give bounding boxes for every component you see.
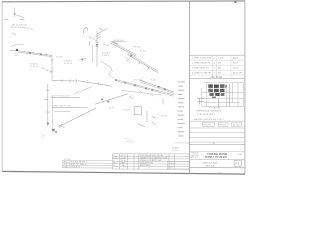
svg-text:GA DWG 2044-301 SHT 1 OF 2: GA DWG 2044-301 SHT 1 OF 2 [194,118,224,121]
svg-text:N 1020.5: N 1020.5 [203,124,212,126]
svg-text:LOCATION: LOCATION [210,106,221,109]
svg-text:EL 94.60: EL 94.60 [135,79,144,81]
svg-text:2044: 2044 [168,167,172,169]
svg-text:NTS: NTS [238,154,243,156]
svg-text:NOTES: NOTES [64,159,71,161]
svg-text:N 990: N 990 [162,115,168,117]
svg-text:A106: A106 [233,56,239,59]
svg-text:APPROVED: APPROVED [140,164,151,167]
svg-text:FW-204: FW-204 [133,46,141,48]
svg-text:EL 97.2: EL 97.2 [140,50,148,52]
svg-text:1 40NB SCH40 PIPE: 1 40NB SCH40 PIPE [192,57,212,59]
svg-text:EL 96.3: EL 96.3 [233,124,241,126]
svg-text:4 40NB FLG WN RF: 4 40NB FLG WN RF [192,72,212,74]
svg-text:REFERENCE DRAWINGS: REFERENCE DRAWINGS [197,110,222,113]
svg-text:A105 SET: A105 SET [233,71,243,74]
svg-text:ISO-1147: ISO-1147 [206,166,216,168]
svg-text:APP GLT: APP GLT [190,156,198,159]
svg-text:40-CW-1147: 40-CW-1147 [114,40,125,42]
svg-text:2 40NB ELBOW 90: 2 40NB ELBOW 90 [192,62,211,64]
svg-text:FROM 102-B: FROM 102-B [11,27,23,29]
svg-text:SUPPLY TO HX-301: SUPPLY TO HX-301 [205,156,228,159]
svg-text:TP-204: TP-204 [123,110,130,112]
svg-text:E 210: E 210 [151,80,157,82]
svg-text:40-CW: 40-CW [56,57,62,59]
svg-text:DWG NO 2044: DWG NO 2044 [203,163,218,165]
svg-text:CONT. ON ISO-1148: CONT. ON ISO-1148 [51,95,70,97]
svg-text:N.T.S.: N.T.S. [172,150,178,152]
svg-text:E 204.6: E 204.6 [102,55,110,57]
svg-text:PAINT SYSTEM P3: PAINT SYSTEM P3 [64,165,81,168]
svg-text:P+ID 102-B REV 2: P+ID 102-B REV 2 [198,114,216,116]
svg-text:JOB NO: JOB NO [168,163,176,165]
svg-text:E 204.1: E 204.1 [219,124,227,126]
svg-text:1147-2: 1147-2 [217,172,224,174]
svg-text:3 40NB GATE VLV: 3 40NB GATE VLV [192,66,210,69]
svg-text:DO NOT SCALE: DO NOT SCALE [175,142,191,145]
svg-text:CONT. ON ISO-1146: CONT. ON ISO-1146 [53,106,72,108]
svg-text:KEY PLAN: KEY PLAN [211,76,223,79]
svg-text:R 2: R 2 [235,162,239,165]
svg-text:A234: A234 [233,61,239,64]
svg-text:EL 96.30: EL 96.30 [30,66,39,68]
svg-text:ISSUED FOR APPROVAL: ISSUED FOR APPROVAL [140,159,162,162]
svg-text:EL 95.10: EL 95.10 [64,63,73,65]
svg-text:3.2 M: 3.2 M [218,57,223,59]
svg-text:EL 93: EL 93 [109,108,115,110]
svg-text:SCALE: SCALE [172,146,179,149]
svg-text:A3: A3 [213,142,215,145]
svg-text:SO-114: SO-114 [103,44,111,46]
